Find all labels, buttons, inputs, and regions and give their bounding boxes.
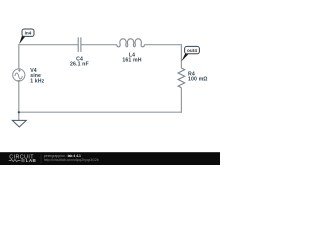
label V4 sine 1 kHz xyxy=(30,68,44,85)
node flag in4 pointer xyxy=(19,36,25,44)
wire left vertical below V4 xyxy=(18,81,20,121)
wire right vertical above R4 xyxy=(180,44,182,68)
label C4 26.1 nF xyxy=(70,56,89,67)
wire top from C4 right plate to L4 xyxy=(81,44,117,46)
footer separator xyxy=(40,154,42,163)
wire left vertical above V4 xyxy=(18,44,20,69)
svg-text:out4: out4 xyxy=(187,48,197,53)
footer bar xyxy=(0,152,220,165)
footer logo square xyxy=(21,159,24,162)
footer logo resistor zigzag xyxy=(9,159,21,161)
resistor R4 xyxy=(178,68,185,88)
svg-text:26.1 nF: 26.1 nF xyxy=(70,62,89,68)
svg-text:1 kHz: 1 kHz xyxy=(30,78,44,84)
capacitor C4 xyxy=(78,37,81,52)
wire right vertical below R4 xyxy=(180,88,182,113)
label L4 161 mH xyxy=(122,52,141,63)
wire top from in4 corner to C4 left plate xyxy=(19,44,78,46)
label R4 100 mOhm xyxy=(188,71,208,82)
svg-text:161 mH: 161 mH xyxy=(122,58,141,64)
node flag in4 xyxy=(22,29,34,36)
svg-text:100 mΩ: 100 mΩ xyxy=(188,77,208,83)
svg-text:http://circuitlab.com/c6pq2hyq: http://circuitlab.com/c6pq2hyqz3G2b xyxy=(44,158,99,162)
source V4 (sine) xyxy=(13,69,25,81)
svg-text:in4: in4 xyxy=(25,31,32,36)
node flag out4 xyxy=(185,46,200,53)
node junction dot xyxy=(18,111,20,113)
ground xyxy=(12,120,26,127)
inductor L4 xyxy=(117,39,145,47)
wire top from L4 to right corner xyxy=(144,44,181,46)
wire bottom xyxy=(19,111,182,113)
node flag out4 pointer xyxy=(181,54,188,62)
svg-text:LAB: LAB xyxy=(26,158,37,163)
